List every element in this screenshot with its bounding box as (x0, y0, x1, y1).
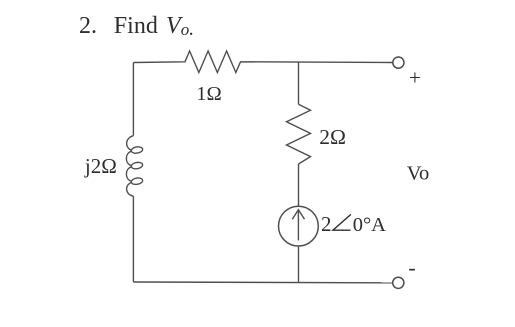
svg-text:2: 2 (321, 212, 332, 236)
svg-text:1Ω: 1Ω (196, 83, 222, 105)
svg-text:.: . (189, 18, 194, 40)
svg-text:2Ω: 2Ω (319, 125, 346, 149)
svg-text:-: - (408, 255, 415, 280)
svg-text:0°A: 0°A (353, 214, 386, 236)
svg-text:Find: Find (114, 13, 158, 39)
svg-text:Vo: Vo (407, 162, 429, 184)
svg-text:+: + (409, 66, 421, 90)
svg-text:j2Ω: j2Ω (84, 154, 117, 178)
svg-text:2.: 2. (79, 13, 97, 39)
